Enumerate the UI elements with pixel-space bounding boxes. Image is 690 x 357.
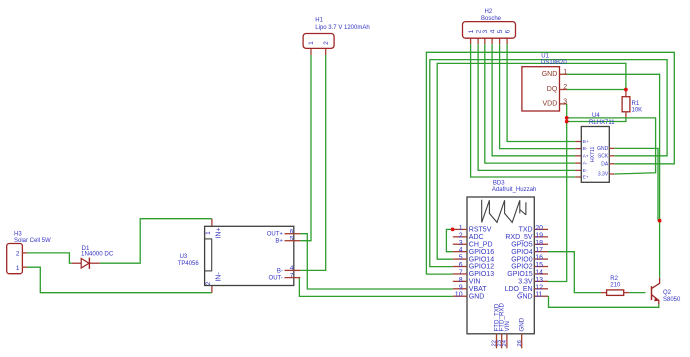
svg-text:SCK: SCK [598,154,609,160]
svg-text:2: 2 [205,281,212,285]
svg-text:12: 12 [535,284,543,291]
svg-text:3.3V: 3.3V [518,279,533,286]
svg-text:DQ: DQ [547,86,558,93]
svg-text:RXD_5V: RXD_5V [505,234,533,241]
svg-text:S8050: S8050 [663,297,681,303]
svg-text:1: 1 [468,29,475,33]
svg-text:OUT+: OUT+ [267,232,284,238]
svg-text:16: 16 [535,255,543,262]
svg-text:B-: B- [277,268,283,274]
svg-text:Q2: Q2 [663,290,672,296]
svg-text:A+: A+ [583,153,589,158]
svg-text:U3: U3 [180,254,188,260]
svg-text:Bosche: Bosche [481,16,502,22]
svg-text:ADC: ADC [469,234,484,241]
svg-text:4: 4 [490,29,497,33]
svg-text:B+: B+ [275,239,283,245]
svg-text:GPIO16: GPIO16 [469,249,494,256]
svg-text:Lipo 3.7 V 1200mAh: Lipo 3.7 V 1200mAh [315,25,369,31]
svg-text:R2: R2 [610,276,618,282]
svg-text:2: 2 [563,84,567,91]
svg-text:BD3: BD3 [493,181,505,187]
svg-text:2: 2 [323,41,330,45]
svg-text:3: 3 [563,99,567,106]
svg-text:GPIO4: GPIO4 [511,249,533,256]
svg-text:7: 7 [459,269,463,276]
svg-text:TP4056: TP4056 [178,261,200,267]
svg-text:U1: U1 [541,54,549,60]
svg-text:20: 20 [535,225,543,232]
svg-text:IN+: IN+ [215,227,222,238]
svg-text:5: 5 [497,29,504,33]
svg-text:2: 2 [16,250,20,257]
svg-text:RLHX711: RLHX711 [589,120,615,126]
svg-text:17: 17 [535,247,543,254]
svg-text:Adafruit_Huzzah: Adafruit_Huzzah [492,187,536,193]
svg-text:10K: 10K [632,108,643,114]
svg-text:TXD: TXD [519,227,533,234]
svg-text:1: 1 [308,41,315,45]
svg-text:GND: GND [519,317,526,331]
svg-text:GPIO0: GPIO0 [511,256,533,263]
svg-text:GPIO12: GPIO12 [469,264,494,271]
svg-text:1: 1 [563,69,567,76]
svg-text:VBAT: VBAT [469,286,487,293]
svg-text:2: 2 [459,232,463,239]
svg-text:GPIO5: GPIO5 [511,241,533,248]
svg-text:DS18B20: DS18B20 [541,60,567,66]
svg-text:E-: E- [583,168,588,173]
svg-text:H2: H2 [485,9,493,15]
svg-text:6: 6 [459,262,463,269]
svg-text:26: 26 [517,340,523,346]
svg-text:6: 6 [505,29,512,33]
svg-text:5: 5 [459,255,463,262]
svg-text:B-: B- [583,146,588,151]
svg-text:1: 1 [16,265,20,272]
svg-text:8: 8 [459,277,463,284]
svg-text:4: 4 [459,247,463,254]
svg-text:11: 11 [535,292,542,299]
svg-text:LDO_EN: LDO_EN [505,286,533,293]
svg-text:OUT-: OUT- [269,276,283,282]
svg-text:4: 4 [290,265,294,272]
svg-text:B+: B+ [583,139,589,144]
svg-text:VDD: VDD [543,100,558,107]
svg-text:13: 13 [535,277,543,284]
svg-text:VIN: VIN [469,279,481,286]
svg-text:GND: GND [469,293,485,300]
svg-text:24: 24 [502,339,508,346]
svg-text:9: 9 [459,284,463,291]
svg-text:15: 15 [535,262,543,269]
svg-text:IN-: IN- [215,272,222,282]
svg-text:18: 18 [535,240,543,247]
svg-text:1: 1 [205,231,212,235]
svg-text:GND: GND [542,71,558,78]
svg-text:GND: GND [517,293,533,300]
svg-text:3: 3 [459,240,463,247]
svg-text:1N4000 DC: 1N4000 DC [81,251,114,258]
svg-text:H3: H3 [14,231,22,237]
svg-text:A-: A- [583,161,588,166]
svg-text:3.3V: 3.3V [598,172,609,178]
svg-text:U4: U4 [592,113,600,119]
svg-text:VIN: VIN [504,321,511,331]
svg-text:10: 10 [455,292,463,299]
svg-text:GPIO14: GPIO14 [469,256,494,263]
svg-text:19: 19 [535,232,543,239]
svg-text:DA: DA [601,162,609,168]
svg-text:14: 14 [535,269,543,276]
svg-text:GND: GND [597,146,609,152]
svg-text:Solar Cell 5W: Solar Cell 5W [14,238,51,244]
svg-text:RST5V: RST5V [469,227,492,234]
svg-text:CH_PD: CH_PD [469,241,493,248]
svg-text:GPIO2: GPIO2 [511,264,533,271]
svg-text:GPIO13: GPIO13 [469,271,494,278]
svg-text:H1: H1 [315,18,323,24]
svg-text:210: 210 [610,282,621,288]
svg-text:R1: R1 [632,101,640,107]
svg-text:E+: E+ [583,175,589,180]
svg-text:HX711: HX711 [590,147,596,163]
svg-text:1: 1 [459,225,463,232]
svg-text:GPIO15: GPIO15 [507,271,532,278]
svg-text:3: 3 [482,29,489,33]
